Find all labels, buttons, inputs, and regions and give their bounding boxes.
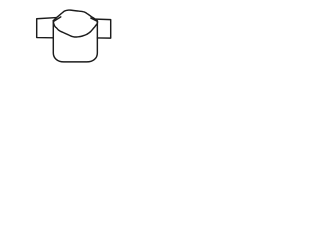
right tab	[96, 19, 111, 38]
left body rim edge	[54, 17, 61, 21]
right body rim edge	[91, 18, 98, 21]
lid dome	[53, 10, 97, 21]
body outline	[53, 21, 97, 62]
left tab	[37, 18, 57, 38]
lid front lip	[53, 21, 97, 37]
